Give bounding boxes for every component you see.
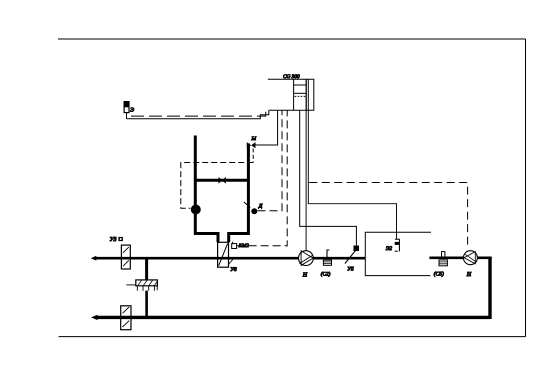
dashed wire S4 to controller (258, 110, 283, 211)
tank left wall (195, 136, 218, 243)
drain C5 (439, 252, 447, 266)
heater / exchanger (126, 280, 157, 291)
svg-text:Э: Э (130, 107, 134, 113)
svg-text:Ы: Ы (251, 136, 257, 142)
dashed wire KM2 to controller (237, 110, 288, 246)
S4 leader tick (244, 202, 251, 208)
frame bottom line (59, 336, 526, 338)
actuator KM2 square (232, 244, 237, 249)
lower pipe arrow (91, 315, 98, 320)
wire from sensor E to controller (solid) (127, 110, 269, 119)
frame top line (58, 38, 526, 40)
valve U6 under tank (funnel valve) (218, 242, 229, 267)
right riser pipe (488, 258, 491, 319)
svg-text:Д: Д (258, 204, 263, 210)
tank right wall (229, 144, 249, 243)
U6 leader (229, 259, 233, 264)
wire controller to pump H1 (305, 80, 307, 251)
wire from sensor E to controller (dashed) (131, 110, 266, 116)
svg-text:У5: У5 (347, 267, 354, 273)
pipe into apparatus right (429, 256, 463, 259)
orifice U3 (upper) (121, 245, 130, 269)
svg-text:Н: Н (466, 272, 472, 278)
svg-text:Н: Н (302, 273, 308, 279)
svg-text:У3: У3 (110, 237, 117, 243)
motor-sensor circle on left wall (191, 205, 201, 215)
valve U5 (345, 246, 359, 264)
valve U1 (top of tank right wall) (247, 142, 256, 148)
upper pipe (95, 257, 365, 260)
drain C2 (323, 250, 331, 265)
tank internal pipe (196, 179, 247, 182)
svg-text:У6: У6 (230, 267, 237, 273)
frame right line (525, 39, 527, 337)
upper pipe arrow (91, 256, 97, 261)
internal check valve (bowtie) (219, 177, 226, 184)
pump H1 (299, 251, 314, 266)
branch pipe down to heater (145, 258, 148, 280)
wire controller to electrode E2 (308, 80, 396, 239)
electrode E2 (395, 239, 400, 251)
dashed drop from valve U1 (252, 148, 254, 162)
dashed wire to right pump (309, 183, 467, 248)
svg-text:(С5): (С5) (434, 271, 444, 277)
sensor S4 dot on right wall (251, 208, 257, 214)
controller CG300 box (268, 79, 314, 110)
wire valve U1 to controller (255, 110, 277, 145)
svg-text:Э2: Э2 (386, 246, 393, 252)
orifice lower (121, 306, 131, 330)
svg-text:CG 300: CG 300 (283, 74, 300, 80)
sensor E (top-left) (124, 102, 129, 113)
lower pipe (96, 316, 491, 319)
apparatus box (365, 232, 431, 275)
svg-text:(С2): (С2) (321, 271, 331, 277)
wire controller to valve U5 (300, 110, 357, 245)
pump H2 (463, 251, 477, 265)
dashed enclosure around tank (181, 163, 253, 209)
